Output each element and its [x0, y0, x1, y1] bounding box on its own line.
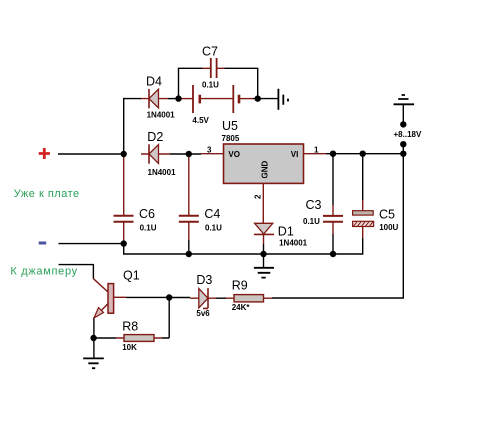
- svg-text:C6: C6: [139, 207, 155, 221]
- svg-text:C5: C5: [379, 208, 395, 222]
- svg-text:10K: 10K: [122, 343, 137, 352]
- svg-text:GND: GND: [261, 161, 270, 179]
- svg-text:0.1U: 0.1U: [303, 217, 320, 226]
- svg-text:1N4001: 1N4001: [147, 111, 176, 120]
- svg-text:+8..18V: +8..18V: [394, 130, 422, 139]
- svg-text:7805: 7805: [222, 134, 240, 143]
- svg-text:U5: U5: [222, 119, 238, 133]
- svg-text:C7: C7: [202, 45, 218, 59]
- svg-text:4.5V: 4.5V: [192, 116, 209, 125]
- svg-text:VO: VO: [228, 150, 240, 159]
- svg-text:R8: R8: [122, 319, 138, 333]
- svg-text:1N4001: 1N4001: [279, 239, 308, 248]
- svg-text:К джамперу: К джамперу: [10, 265, 78, 277]
- svg-text:3: 3: [207, 146, 212, 155]
- svg-text:C4: C4: [204, 207, 220, 221]
- svg-text:D2: D2: [147, 130, 163, 144]
- svg-text:0.1U: 0.1U: [205, 223, 222, 232]
- svg-text:C3: C3: [306, 198, 322, 212]
- svg-text:D3: D3: [196, 273, 212, 287]
- svg-text:1: 1: [314, 146, 319, 155]
- svg-text:0.1U: 0.1U: [202, 80, 219, 89]
- svg-text:D1: D1: [278, 225, 294, 239]
- svg-text:Q1: Q1: [123, 269, 140, 283]
- svg-text:Уже к плате: Уже к плате: [14, 188, 80, 200]
- svg-text:D4: D4: [146, 75, 162, 89]
- svg-text:R9: R9: [232, 279, 248, 293]
- svg-text:VI: VI: [291, 150, 299, 159]
- svg-text:24K*: 24K*: [232, 303, 251, 312]
- svg-text:2: 2: [254, 194, 263, 199]
- svg-text:0.1U: 0.1U: [140, 223, 157, 232]
- svg-text:5v6: 5v6: [196, 309, 210, 318]
- svg-text:100U: 100U: [379, 223, 398, 232]
- svg-text:1N4001: 1N4001: [148, 168, 177, 177]
